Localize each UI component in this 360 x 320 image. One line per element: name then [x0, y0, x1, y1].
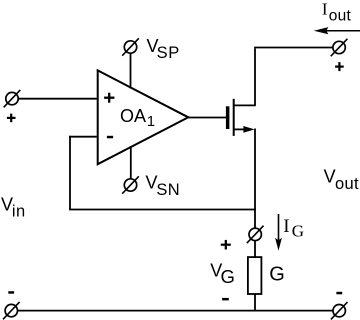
svg-text:SN: SN — [156, 181, 180, 199]
minus sign below VG — [222, 298, 229, 301]
wire: op-amp bottom edge to VSN terminal — [130, 146, 132, 179]
plus sign at input terminal — [7, 114, 16, 123]
Iout current arrow line — [326, 30, 360, 32]
plus sign at output terminal — [335, 62, 344, 71]
svg-text:G: G — [292, 221, 304, 240]
svg-text:G: G — [269, 264, 285, 286]
ground rail wire — [18, 310, 334, 312]
plus sign above VG — [221, 240, 231, 250]
svg-text:in: in — [12, 202, 26, 220]
label VSP — [147, 36, 180, 62]
op-amp minus input marking — [107, 136, 113, 139]
transistor Q1 channel line — [233, 99, 235, 136]
wire: source down to source-node terminal — [254, 129, 256, 229]
wire: op-amp - input stub — [69, 136, 97, 138]
op-amp plus input marking — [104, 93, 114, 103]
label VSN — [146, 172, 181, 199]
IG current arrow line — [278, 214, 280, 240]
terminal VSP — [122, 38, 139, 55]
svg-text:SP: SP — [157, 44, 180, 62]
terminal output (Iout) — [331, 39, 348, 56]
transistor Q1 gate bar — [226, 106, 230, 129]
IG current arrowhead — [275, 238, 282, 251]
op-amp U1 (OA1) triangle — [98, 70, 189, 164]
label VG — [210, 260, 235, 287]
wire: box bottom to ground rail — [254, 294, 256, 312]
Iout current arrowhead — [314, 27, 329, 34]
transistor Q1 source stub — [234, 128, 246, 130]
terminal ground right — [331, 302, 348, 319]
op-amp label OA1 — [120, 106, 155, 130]
wire: op-amp output to transistor gate — [188, 117, 226, 119]
minus sign at ground right — [336, 292, 342, 295]
svg-text:OA: OA — [120, 106, 146, 126]
svg-text:1: 1 — [147, 113, 155, 130]
wire: top horizontal to output terminal — [254, 47, 333, 49]
label Vout — [324, 167, 359, 194]
label Iout — [322, 0, 352, 25]
terminal input (circle with slash) — [4, 90, 21, 107]
wire: feedback vertical — [69, 136, 71, 210]
wire: terminal to conductance box — [254, 241, 256, 258]
minus sign at ground left — [8, 291, 14, 294]
svg-text:G: G — [221, 266, 235, 287]
svg-text:out: out — [335, 175, 359, 193]
label IG — [283, 216, 304, 240]
svg-text:V: V — [324, 167, 336, 187]
terminal source node — [247, 226, 264, 243]
svg-text:I: I — [322, 0, 328, 19]
terminal VSN — [122, 176, 139, 193]
conductance G box — [248, 257, 262, 294]
wire: VSP terminal to op-amp top edge — [130, 53, 132, 89]
wire: drain up to output node — [254, 48, 256, 104]
transistor Q1 source arrow (n-channel) — [243, 126, 254, 133]
svg-text:I: I — [283, 216, 289, 237]
terminal ground left — [3, 302, 20, 319]
transistor Q1 drain stub — [234, 104, 256, 106]
wire: feedback horizontal to source node — [69, 209, 256, 211]
svg-text:out: out — [329, 8, 352, 25]
label Vin — [1, 195, 26, 221]
wire: input terminal to op-amp + input — [18, 98, 97, 100]
